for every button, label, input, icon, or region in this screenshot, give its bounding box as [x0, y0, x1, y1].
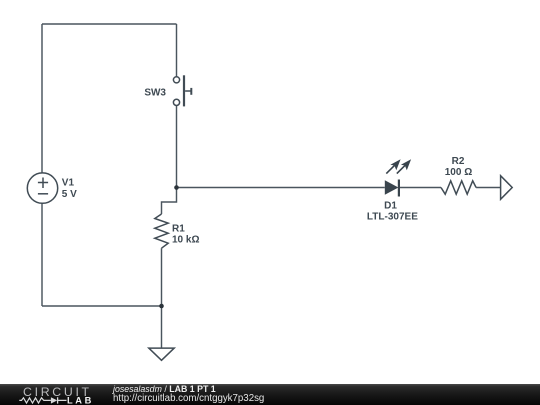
CircuitLab logo: diode symbol [51, 397, 57, 403]
wire R1 bottom to node B [161, 248, 163, 306]
resistor R1 [155, 214, 168, 248]
node A junction dot [174, 185, 179, 190]
resistor R2 [441, 181, 476, 194]
wire LED cathode to R2 [399, 187, 441, 189]
wire switch top [176, 24, 178, 77]
wire node A jog to R1 top [162, 188, 177, 215]
footer bar [0, 384, 540, 405]
LED D1 [385, 159, 411, 196]
svg-text:LTL-307EE: LTL-307EE [367, 211, 418, 222]
switch SW3 (pushbutton) [173, 75, 191, 106]
svg-text:R2: R2 [452, 156, 465, 167]
svg-text:5 V: 5 V [62, 189, 77, 200]
node B junction dot [159, 304, 164, 309]
svg-text:LAB: LAB [67, 395, 94, 405]
svg-text:V1: V1 [62, 178, 75, 189]
ground symbol [149, 348, 174, 360]
svg-text:SW3: SW3 [144, 88, 166, 99]
svg-text:10 kΩ: 10 kΩ [172, 234, 199, 245]
wire left rail (top of V1) [41, 24, 43, 173]
wire switch bottom to node A [176, 106, 178, 188]
wire R2 to output flag [476, 187, 501, 189]
svg-text:http://circuitlab.com/cntggyk7: http://circuitlab.com/cntggyk7p32sg [113, 393, 264, 404]
CircuitLab logo: resistor squiggle [19, 398, 51, 403]
wire top rail [42, 23, 177, 25]
output flag (node terminal) [501, 176, 513, 200]
wire ground drop [161, 306, 163, 348]
wire node A to LED anode [177, 187, 385, 189]
svg-text:D1: D1 [384, 201, 397, 212]
voltage source V1 [27, 173, 57, 203]
svg-text:100 Ω: 100 Ω [445, 167, 472, 178]
wire bottom rail [42, 305, 162, 307]
wire V1 bottom [41, 203, 43, 306]
svg-text:R1: R1 [172, 224, 185, 235]
